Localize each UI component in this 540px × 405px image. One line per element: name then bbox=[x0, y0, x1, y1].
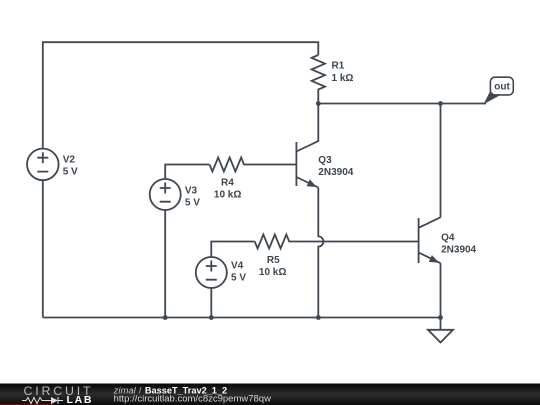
svg-text:10 kΩ: 10 kΩ bbox=[214, 190, 241, 201]
resistor R5 bbox=[255, 235, 419, 249]
node junction dot V4 bottom bbox=[209, 315, 214, 320]
svg-text:http://circuitlab.com/c8zc9pem: http://circuitlab.com/c8zc9pemw78qw bbox=[114, 393, 271, 404]
transistor Q3 bbox=[296, 104, 318, 188]
node junction dot R1/out bbox=[316, 101, 321, 106]
ground bbox=[428, 318, 453, 343]
wire V3 bottom to bottom rail bbox=[164, 210, 166, 318]
label R1 value bbox=[332, 61, 354, 84]
footer bar bbox=[0, 384, 540, 405]
footer credit line bbox=[113, 385, 228, 396]
label Q3 value bbox=[318, 155, 353, 178]
svg-text:R4: R4 bbox=[221, 178, 234, 189]
wire out net horizontal bbox=[318, 103, 486, 105]
CircuitLab logo text LAB bbox=[67, 394, 94, 405]
svg-text:2N3904: 2N3904 bbox=[441, 245, 476, 256]
svg-text:out: out bbox=[494, 82, 510, 93]
svg-text:5 V: 5 V bbox=[231, 273, 246, 284]
svg-text:10 kΩ: 10 kΩ bbox=[259, 267, 286, 278]
voltage source V4 bbox=[196, 257, 227, 288]
label V2 value bbox=[63, 155, 78, 178]
label Q4 value bbox=[441, 233, 476, 256]
CircuitLab logo text CIRCUIT bbox=[24, 384, 94, 398]
node junction dot ground bbox=[438, 315, 443, 320]
label R4 value bbox=[214, 178, 241, 201]
wire Q4 collector vertical bbox=[440, 104, 442, 218]
label V4 value bbox=[231, 261, 246, 284]
svg-text:Q4: Q4 bbox=[441, 233, 455, 244]
svg-text:V4: V4 bbox=[231, 261, 244, 272]
svg-text:1 kΩ: 1 kΩ bbox=[332, 73, 354, 84]
wire V4 bottom to bottom rail bbox=[210, 288, 212, 318]
wire bottom rail bbox=[43, 317, 441, 319]
label out flag text bbox=[494, 82, 510, 93]
svg-text:V2: V2 bbox=[63, 155, 76, 166]
wire V2 bottom to bottom rail bbox=[42, 180, 44, 317]
svg-text:Q3: Q3 bbox=[318, 155, 332, 166]
svg-text:LAB: LAB bbox=[67, 394, 94, 405]
wire V3 top to R4 bbox=[165, 165, 209, 180]
footer url line bbox=[114, 393, 271, 404]
voltage source V2 bbox=[27, 149, 59, 181]
svg-text:R5: R5 bbox=[267, 255, 280, 266]
svg-text:V3: V3 bbox=[185, 186, 198, 197]
svg-text:R1: R1 bbox=[332, 61, 345, 72]
wire Q3 emitter with hop over R5 wire bbox=[318, 188, 323, 318]
node junction dot V3 bottom bbox=[163, 315, 168, 320]
svg-text:5 V: 5 V bbox=[63, 167, 78, 178]
svg-text:2N3904: 2N3904 bbox=[318, 167, 353, 178]
voltage source V3 bbox=[150, 179, 181, 210]
node junction dot Q3 emitter bottom bbox=[316, 315, 321, 320]
svg-text:5 V: 5 V bbox=[185, 198, 200, 209]
label V3 value bbox=[185, 186, 200, 209]
label R5 value bbox=[259, 255, 286, 278]
footer red accent line bbox=[0, 404, 54, 405]
CircuitLab logo resistor-diode glyph bbox=[22, 397, 63, 404]
wire top rail from V2 to R1 bbox=[43, 42, 319, 149]
wire Q4 emitter to bottom rail bbox=[440, 263, 442, 317]
out flag bbox=[484, 77, 514, 104]
node junction dot Q4 collector bbox=[438, 101, 443, 106]
wire V4 top to R5 bbox=[211, 242, 254, 258]
transistor Q4 bbox=[419, 217, 441, 263]
resistor R1 bbox=[312, 55, 325, 104]
resistor R4 bbox=[210, 158, 297, 172]
